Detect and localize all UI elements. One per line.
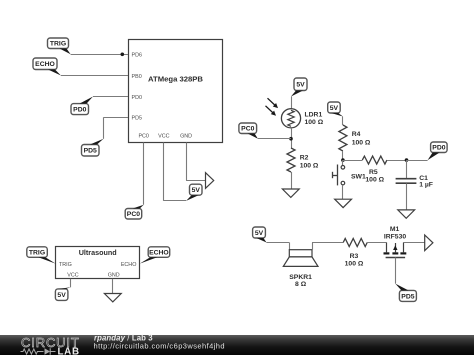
- net flag 5V (speaker): [253, 227, 266, 238]
- svg-text:PC0: PC0: [127, 211, 140, 218]
- net flag ECHO (ultrasound): [148, 247, 170, 257]
- svg-text:R4: R4: [352, 131, 361, 138]
- wire PC0 pin down: [143, 143, 145, 205]
- svg-text:5V: 5V: [296, 82, 305, 89]
- logo diode: [45, 348, 51, 354]
- svg-text:TRIG: TRIG: [50, 41, 66, 48]
- svg-text:http://circuitlab.com/c6p3wseh: http://circuitlab.com/c6p3wsehf4jhd: [94, 342, 225, 351]
- capacitor C1: [396, 178, 417, 180]
- ground (below SW1): [335, 199, 352, 207]
- svg-text:PD6: PD6: [132, 53, 143, 59]
- net flag PD5: [82, 145, 100, 157]
- net flag 5V (LDR top): [294, 78, 307, 91]
- svg-text:PD0: PD0: [132, 95, 143, 101]
- svg-text:IRF530: IRF530: [384, 234, 407, 241]
- resistor R4: [339, 125, 347, 151]
- wire ECHO to PB0: [61, 75, 128, 77]
- transistor M1 IRF530: [386, 243, 388, 253]
- svg-text:TRIG: TRIG: [59, 262, 72, 268]
- svg-text:100 Ω: 100 Ω: [345, 260, 364, 267]
- junction dot on PD6 wire: [121, 53, 125, 57]
- net flag PC0 (LDR node): [239, 123, 257, 134]
- net flag ECHO: [33, 58, 57, 70]
- footer bar: [0, 335, 474, 355]
- wire 5V to speaker left: [267, 242, 290, 244]
- svg-text:SPKR1: SPKR1: [289, 274, 312, 281]
- wire GND pin to ground: [112, 279, 114, 294]
- svg-text:LDR1: LDR1: [305, 112, 323, 119]
- wire R3 to M1 drain: [367, 242, 386, 244]
- svg-text:ECHO: ECHO: [121, 262, 137, 268]
- svg-text:R2: R2: [300, 155, 309, 162]
- svg-text:PC0: PC0: [138, 134, 149, 140]
- wire VCC pin down to 5V: [163, 143, 165, 201]
- svg-text:100 Ω: 100 Ω: [300, 163, 319, 170]
- resistor R3: [343, 239, 367, 247]
- svg-text:R3: R3: [350, 253, 359, 260]
- ground (right of M1, right-pointing): [425, 235, 433, 251]
- wire 5V to R4: [342, 117, 344, 126]
- wire R2 to ground: [291, 172, 293, 189]
- svg-text:100 Ω: 100 Ω: [305, 119, 324, 126]
- svg-text:LAB: LAB: [58, 346, 80, 355]
- switch SW1 bar: [337, 165, 339, 186]
- wire C1 to ground: [406, 184, 408, 210]
- switch SW1 terminal top: [341, 166, 345, 170]
- junction dot R4/SW1/R5: [341, 158, 345, 162]
- junction dot LDR/R2/PC0: [289, 137, 293, 141]
- svg-text:VCC: VCC: [158, 134, 169, 140]
- svg-text:GND: GND: [180, 134, 192, 140]
- svg-text:TRIG: TRIG: [29, 250, 45, 257]
- resistor R2: [287, 148, 295, 172]
- ATMega 328PB chip U1: [129, 40, 223, 143]
- wire PD0 flag to PD0 pin: [93, 96, 128, 98]
- svg-text:ECHO: ECHO: [149, 250, 169, 257]
- wire speaker right to R3: [312, 243, 314, 250]
- svg-text:VCC: VCC: [67, 272, 78, 278]
- svg-text:M1: M1: [390, 226, 400, 233]
- switch SW1 terminal bottom: [341, 181, 345, 185]
- svg-text:Ultrasound: Ultrasound: [79, 248, 117, 257]
- net flag 5V (R4 top): [328, 102, 341, 113]
- svg-text:PD5: PD5: [132, 116, 143, 122]
- wire SW1 to ground: [342, 185, 344, 199]
- wire LDR1 to node: [291, 128, 293, 148]
- svg-text:SW1: SW1: [351, 174, 366, 181]
- svg-text:R5: R5: [369, 169, 378, 176]
- ground (below C1): [398, 210, 415, 218]
- speaker SPKR1: [289, 250, 312, 257]
- wire node to SW1: [342, 160, 344, 165]
- svg-text:PD5: PD5: [401, 293, 414, 300]
- ground (ultrasound GND): [104, 294, 121, 302]
- net flag TRIG (ultrasound): [27, 247, 48, 257]
- switch SW1 stem: [333, 175, 338, 177]
- svg-text:5V: 5V: [330, 105, 339, 112]
- wire R4 to node: [342, 151, 344, 160]
- net flag 5V (ultrasound VCC): [55, 289, 68, 301]
- svg-text:100 Ω: 100 Ω: [352, 140, 371, 147]
- net flag PD0: [71, 104, 89, 115]
- svg-text:PD0: PD0: [73, 107, 86, 114]
- svg-text:PD0: PD0: [432, 145, 445, 152]
- wire VCC pin to 5V flag: [70, 279, 72, 288]
- svg-text:PC0: PC0: [241, 126, 254, 133]
- wire node to PD0 flag: [407, 160, 428, 162]
- wire M1 gate to PD5: [395, 257, 397, 283]
- wire TRIG to PD6: [71, 54, 128, 56]
- wire node to R5: [343, 160, 362, 162]
- svg-text:ATMega 328PB: ATMega 328PB: [148, 75, 203, 84]
- photoresistor LDR1: [281, 109, 300, 128]
- svg-text:100 Ω: 100 Ω: [365, 177, 384, 184]
- wire node to C1: [406, 160, 408, 178]
- svg-text:5V: 5V: [192, 187, 201, 194]
- wire PD5 flag to PD5 pin: [104, 117, 129, 119]
- wire R5 to node: [387, 160, 407, 162]
- ground (below R2): [282, 189, 299, 197]
- svg-text:8 Ω: 8 Ω: [295, 281, 307, 288]
- svg-text:GND: GND: [108, 272, 120, 278]
- svg-text:PB0: PB0: [132, 74, 142, 80]
- net flag PD5 (M1 gate): [399, 290, 416, 301]
- net flag TRIG: [48, 38, 69, 49]
- switch SW1 cap: [332, 172, 334, 178]
- LDR1 light arrows: [268, 98, 276, 106]
- wire 5V to LDR1: [291, 97, 293, 109]
- Ultrasound module box: [56, 247, 140, 279]
- wire M1 source to ground: [403, 242, 425, 244]
- logo resistor zigzag: [21, 349, 44, 354]
- wire PC0 flag to node: [258, 138, 291, 140]
- net flag 5V (chip VCC): [190, 184, 203, 195]
- svg-text:1 µF: 1 µF: [419, 182, 433, 189]
- svg-text:5V: 5V: [57, 292, 66, 299]
- net flag PD0 (right): [431, 142, 448, 153]
- ground (chip GND, right-pointing): [206, 173, 214, 189]
- junction dot R5/C1/PD0: [405, 158, 409, 162]
- wire GND pin to ground: [186, 143, 188, 181]
- svg-text:PD5: PD5: [84, 148, 97, 155]
- svg-text:ECHO: ECHO: [35, 61, 55, 68]
- svg-text:5V: 5V: [255, 230, 264, 237]
- net flag PC0: [125, 209, 142, 220]
- resistor R5: [362, 156, 387, 164]
